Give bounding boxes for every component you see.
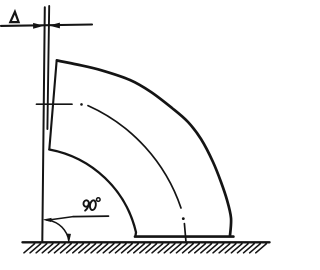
pipe centerline: curved dash <box>88 106 181 208</box>
plumb datum line <box>42 7 45 241</box>
angle leader arrowhead <box>44 218 51 221</box>
angle leader line <box>47 217 73 221</box>
arrowhead pointing right at datum line <box>34 23 43 28</box>
elbow inner arc <box>49 150 136 237</box>
degree mark <box>97 198 101 202</box>
angle arc 90 degrees <box>48 220 69 241</box>
angle label underline <box>73 215 109 218</box>
face extension line <box>47 6 49 129</box>
dimension line for Δ <box>1 25 92 26</box>
pipe centerline: straight dash through top face <box>37 103 73 105</box>
ground line <box>23 241 270 243</box>
pipe centerline: dot near bottom <box>182 217 185 220</box>
pipe centerline: bottom dash <box>184 224 186 241</box>
pipe centerline: dot <box>80 103 83 106</box>
dimension label Δ <box>10 12 18 22</box>
elbow outer arc <box>57 61 231 236</box>
angle label digit 0 <box>89 200 96 211</box>
arrowhead pointing left at face extension line <box>50 23 59 28</box>
elbow top end face <box>49 60 56 150</box>
elbow bottom end face <box>135 235 233 238</box>
ground hatching <box>24 244 266 253</box>
angle arc arrowhead <box>68 234 71 242</box>
angle label digit 9 <box>83 200 89 207</box>
